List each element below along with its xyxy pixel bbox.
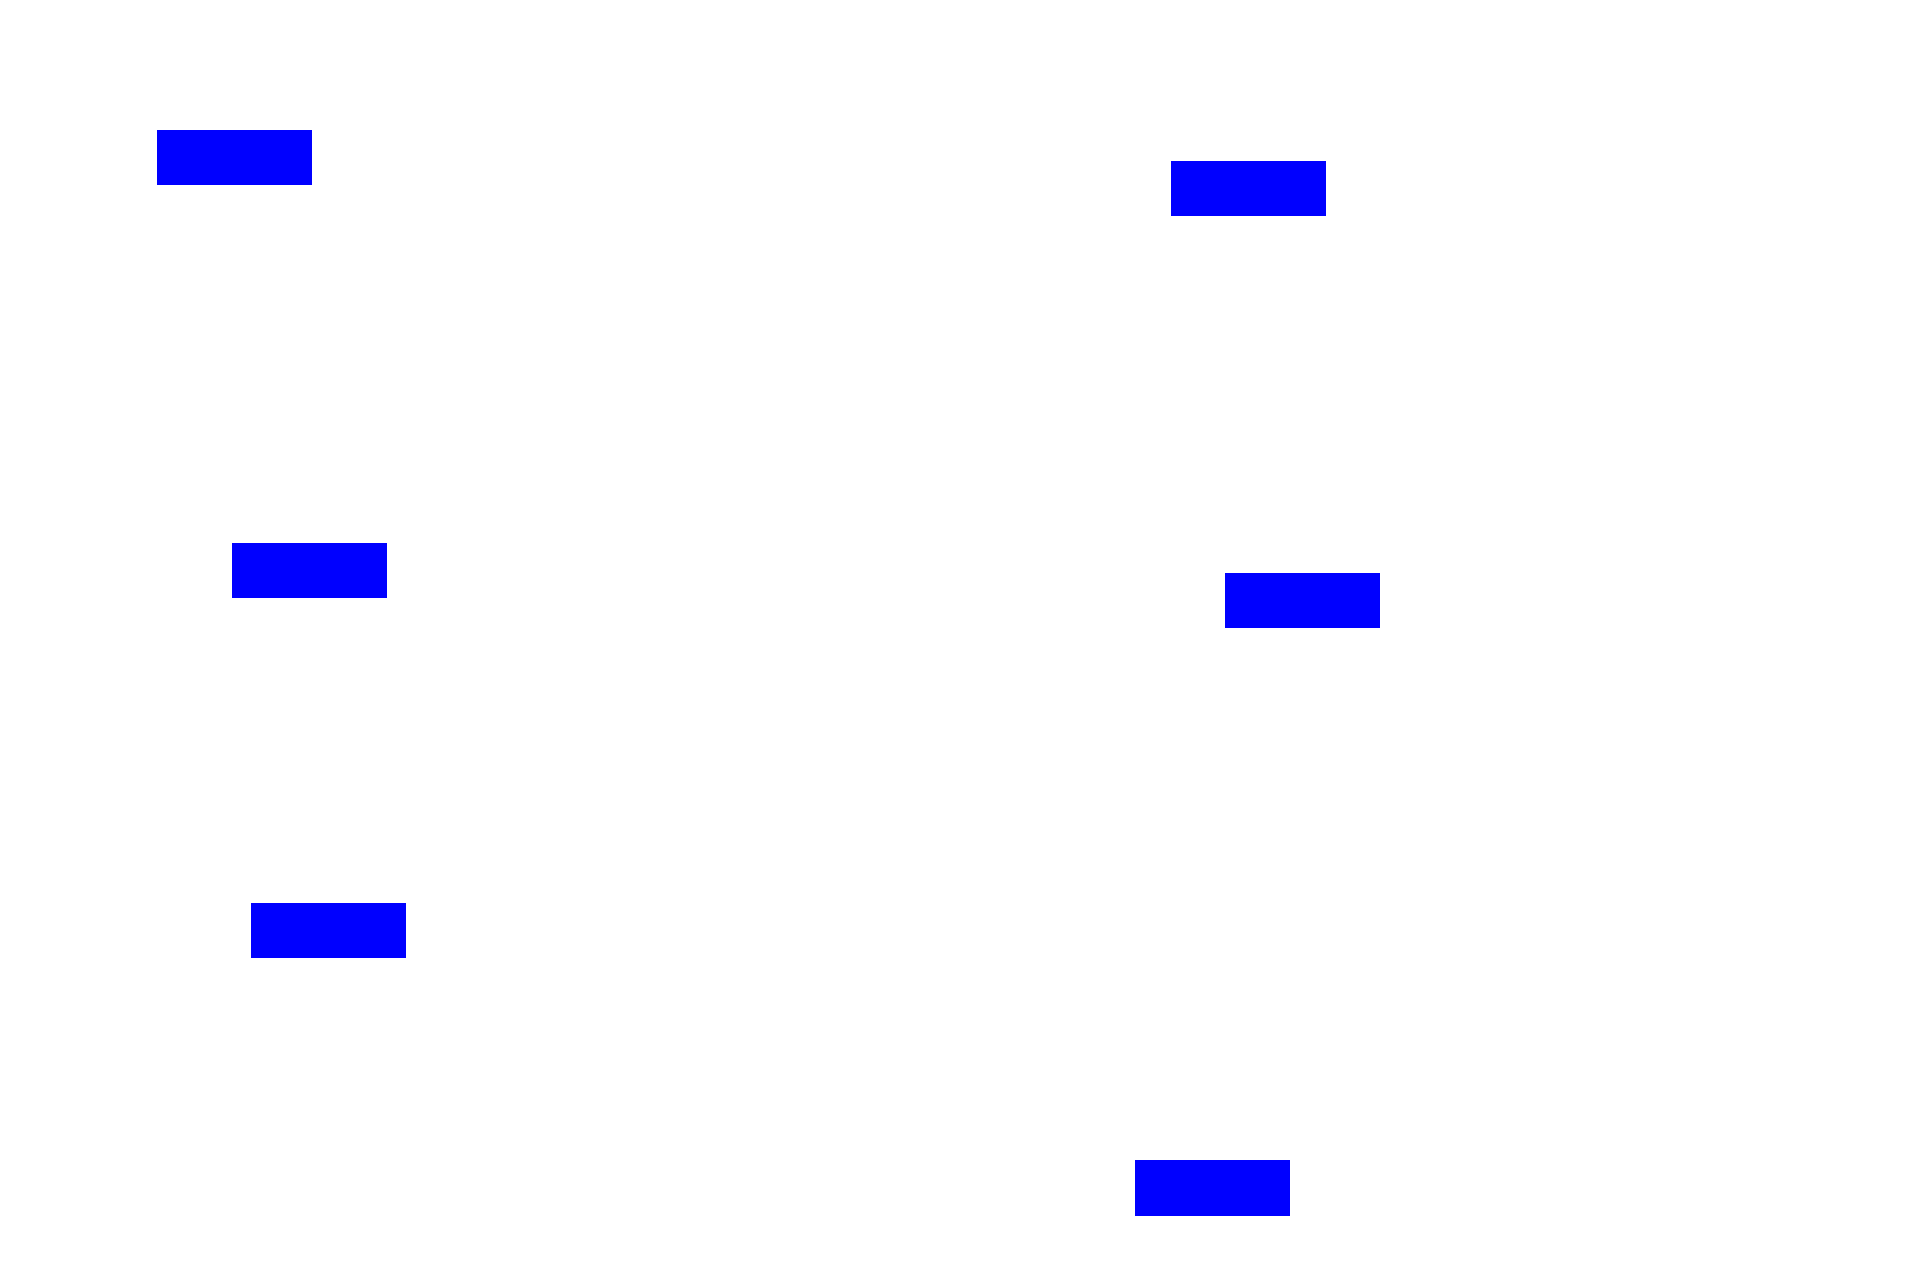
blue rectangle 3 (mid-left) [232,543,388,599]
blue rectangle 6 (bottom-right) [1135,1160,1291,1216]
blue rectangle 4 (mid-right) [1225,573,1381,629]
blue rectangle 2 (top-right) [1171,161,1327,217]
blue rectangle 1 (top-left) [157,130,313,186]
blue rectangle 5 (lower-left) [251,903,407,959]
